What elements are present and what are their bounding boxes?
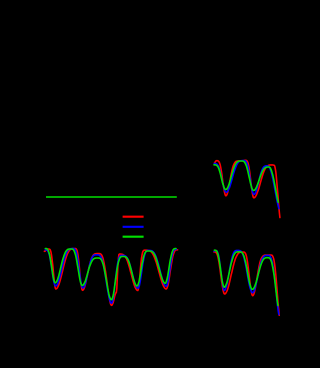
flat green line left subplot [46,196,177,198]
bottom-left green curve [45,249,176,300]
legend blue line [123,226,144,228]
legend red line [123,216,144,218]
bottom-right blue curve [214,250,279,314]
bottom-right green curve [214,250,278,305]
top-right blue curve [214,161,279,209]
legend green line [123,236,144,238]
top-right red curve [214,160,280,217]
top-right green curve [214,161,278,202]
bottom-left blue curve [45,249,176,304]
bottom-right red curve [214,252,279,315]
bottom-left red curve [44,249,177,306]
